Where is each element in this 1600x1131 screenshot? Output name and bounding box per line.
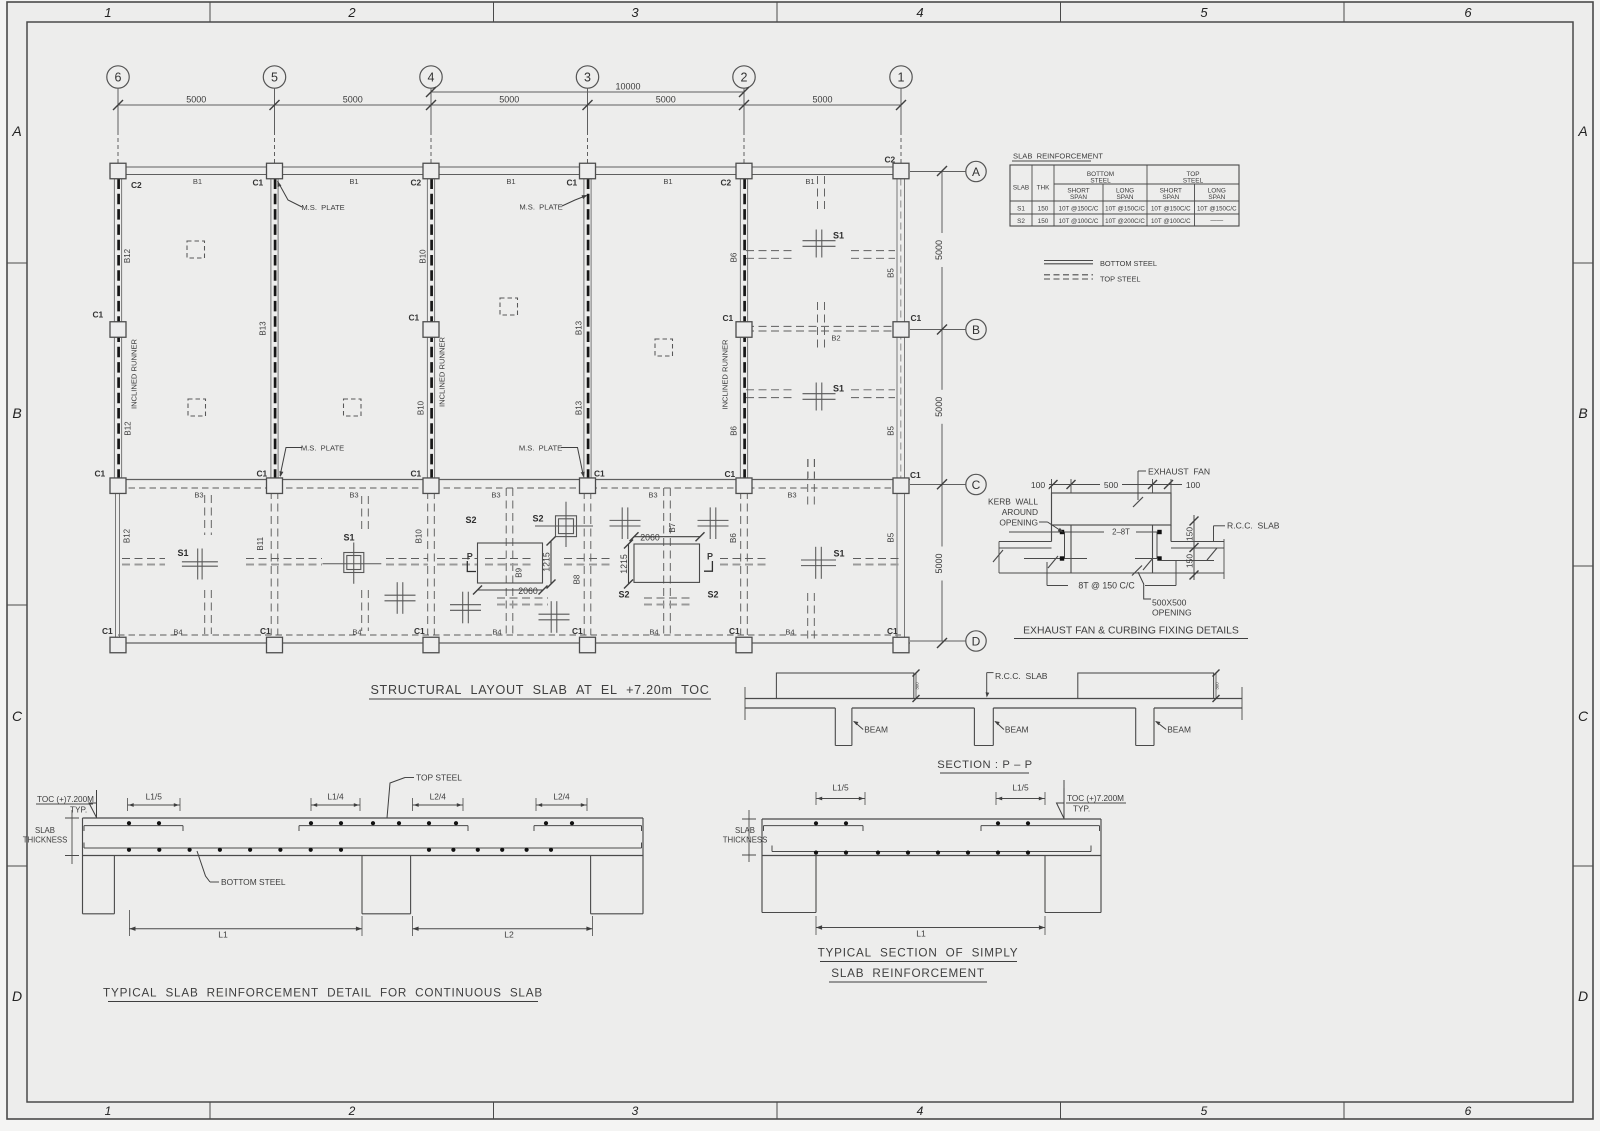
500x500 opening label [1132, 566, 1142, 576]
svg-text:C1: C1 [887, 626, 898, 636]
dim 1215 left of rect2 [628, 544, 630, 584]
rcc slab bottom [999, 572, 1224, 574]
svg-text:INCLINED RUNNER: INCLINED RUNNER [130, 338, 139, 409]
svg-text:B1: B1 [663, 177, 672, 186]
svg-text:L1/5: L1/5 [146, 792, 163, 802]
grid stem 3 [587, 88, 589, 131]
svg-text:M.S. PLATE: M.S. PLATE [519, 203, 562, 212]
svg-text:1: 1 [104, 5, 111, 20]
svg-text:150: 150 [1185, 527, 1195, 541]
svg-text:B4: B4 [492, 628, 501, 637]
grid6 edge beam C-D [115, 494, 117, 638]
svg-text:BOTTOM STEEL: BOTTOM STEEL [1100, 259, 1157, 268]
svg-text:STEEL: STEEL [1183, 178, 1204, 185]
row connector D [910, 640, 966, 642]
bottom steel line simply [772, 851, 1091, 853]
svg-text:OPENING: OPENING [999, 518, 1038, 528]
row A beam B1 double line [111, 166, 909, 168]
row D beam line solid [110, 642, 910, 644]
svg-text:B11: B11 [256, 536, 265, 550]
svg-text:L1/4: L1/4 [327, 792, 344, 802]
svg-text:B10: B10 [417, 400, 426, 415]
svg-text:L1: L1 [218, 930, 228, 940]
vertical dim 5000 right [941, 171, 943, 641]
svg-text:B2: B2 [831, 333, 840, 342]
svg-text:5000: 5000 [934, 553, 944, 573]
svg-text:SPAN: SPAN [1117, 194, 1134, 201]
top span dims simply [816, 798, 865, 800]
svg-text:AROUND: AROUND [1002, 507, 1038, 517]
svg-text:A: A [1577, 123, 1587, 139]
columns row B [110, 322, 126, 338]
svg-text:B: B [1578, 405, 1587, 421]
top span dims continuous [128, 804, 181, 806]
svg-text:S1: S1 [177, 548, 188, 558]
svg-text:B6: B6 [729, 533, 738, 543]
svg-text:B13: B13 [575, 400, 584, 415]
svg-text:L2: L2 [504, 930, 514, 940]
right zone strip dividers [1573, 262, 1593, 264]
svg-text:THICKNESS: THICKNESS [723, 836, 768, 845]
dim 2060 above rect2 [634, 536, 700, 538]
svg-text:S2: S2 [707, 590, 718, 600]
svg-text:1215: 1215 [542, 552, 552, 572]
svg-text:1: 1 [898, 71, 905, 85]
S2 rect bay3-2 section P [634, 544, 700, 582]
dim L2 continuous [413, 928, 593, 930]
bottom steel line continuous [84, 847, 642, 849]
svg-text:C2: C2 [131, 180, 142, 190]
svg-text:100: 100 [1031, 480, 1046, 490]
svg-text:6: 6 [1464, 5, 1472, 20]
svg-text:B1: B1 [193, 177, 202, 186]
top steel dots continuous [127, 821, 131, 825]
svg-text:C: C [972, 478, 981, 492]
grid bubble 2 [733, 66, 755, 88]
svg-text:5000: 5000 [812, 95, 832, 105]
rebar dots kerb [1060, 530, 1064, 534]
dim line 10000 grid4-grid2 [431, 91, 744, 93]
svg-text:C1: C1 [572, 626, 583, 636]
slab S2 nested square near grid3 [556, 516, 577, 537]
svg-text:1: 1 [105, 1104, 112, 1118]
bottom dashed stubs below S2 rects [497, 597, 548, 599]
svg-text:B12: B12 [123, 528, 132, 543]
svg-text:C: C [12, 708, 23, 724]
legend bottom steel [1044, 260, 1093, 262]
svg-text:S1: S1 [833, 384, 844, 394]
pad height ticks [915, 673, 917, 699]
svg-text:6: 6 [115, 71, 122, 85]
svg-text:INCLINED RUNNER: INCLINED RUNNER [721, 339, 730, 410]
svg-text:P: P [467, 552, 473, 562]
svg-text:L1: L1 [916, 929, 926, 939]
svg-text:C1: C1 [729, 626, 740, 636]
svg-text:B: B [972, 323, 980, 337]
beam B7 mid-bay3-2 dashed [663, 488, 665, 635]
row connector A [910, 171, 966, 173]
columns row D [110, 637, 126, 653]
svg-text:SPAN: SPAN [1070, 194, 1087, 201]
svg-text:SLAB: SLAB [1013, 185, 1029, 192]
svg-text:10T @150C/C: 10T @150C/C [1059, 206, 1099, 213]
svg-text:M.S. PLATE: M.S. PLATE [301, 444, 344, 453]
svg-text:C1: C1 [414, 626, 425, 636]
svg-text:B5: B5 [887, 425, 896, 435]
svg-text:SPAN: SPAN [1208, 194, 1225, 201]
svg-text:B1: B1 [506, 177, 515, 186]
svg-text:2060: 2060 [640, 532, 660, 542]
svg-text:3: 3 [631, 5, 639, 20]
svg-text:C1: C1 [411, 469, 422, 479]
beam B6 grid2 C-D dashed [740, 491, 742, 635]
beam B9 mid-bay4-3 dashed [505, 488, 507, 635]
svg-text:——: —— [1210, 217, 1223, 224]
beam B11 grid5 C-D dashed [270, 491, 272, 635]
svg-text:S1: S1 [833, 549, 844, 559]
svg-text:C1: C1 [257, 469, 268, 479]
svg-text:EXHAUST FAN & CURBING FIXING D: EXHAUST FAN & CURBING FIXING DETAILS [1023, 626, 1239, 637]
svg-text:A: A [11, 123, 21, 139]
svg-text:10T @150C/C: 10T @150C/C [1105, 206, 1145, 213]
top zone strip dividers [209, 2, 211, 22]
svg-text:5: 5 [1201, 1104, 1208, 1118]
slab S1 cross right bay lower [815, 383, 817, 411]
svg-text:STRUCTURAL LAYOUT SLAB AT: STRUCTURAL LAYOUT SLAB AT EL +7.20m TOC [370, 683, 709, 697]
svg-text:C1: C1 [102, 626, 113, 636]
svg-text:2: 2 [741, 71, 748, 85]
bottom zone strip dividers [209, 1102, 211, 1119]
inclined runner verticals grids 6-2 [113, 179, 115, 479]
svg-text:P: P [707, 552, 713, 562]
small cross grid3 low [550, 601, 552, 633]
svg-text:5: 5 [1200, 5, 1208, 20]
right bay vertical stubs [817, 176, 819, 210]
svg-text:C1: C1 [95, 469, 106, 479]
top steel dots simply [814, 821, 818, 825]
svg-text:B: B [12, 405, 21, 421]
top steel lines simply [764, 825, 864, 827]
exhaust detail dim line top [1028, 484, 1202, 486]
svg-text:5000: 5000 [186, 95, 206, 105]
svg-text:3: 3 [584, 71, 591, 85]
svg-text:5: 5 [271, 71, 278, 85]
svg-text:R.C.C. SLAB: R.C.C. SLAB [995, 671, 1048, 681]
row bubble C [966, 474, 986, 494]
svg-text:SECTION : P – P: SECTION : P – P [937, 759, 1032, 771]
bottom steel dots simply [814, 851, 818, 855]
svg-text:B10: B10 [419, 249, 428, 264]
svg-text:C1: C1 [253, 178, 264, 188]
svg-text:M.S. PLATE: M.S. PLATE [301, 203, 344, 212]
svg-text:B5: B5 [887, 268, 896, 278]
row C beam line dashed [118, 487, 901, 489]
svg-text:D: D [1578, 988, 1588, 1004]
svg-text:C1: C1 [725, 469, 736, 479]
svg-text:1215: 1215 [619, 554, 629, 574]
svg-text:STEEL: STEEL [1090, 178, 1111, 185]
svg-text:S1: S1 [833, 231, 844, 241]
svg-text:10T @150C/C: 10T @150C/C [1197, 206, 1237, 213]
svg-text:3: 3 [632, 1104, 639, 1118]
svg-text:2–8T: 2–8T [1112, 528, 1130, 537]
svg-text:BOTTOM STEEL: BOTTOM STEEL [221, 877, 286, 887]
svg-text:4: 4 [428, 71, 435, 85]
kerb rebar 2-8T [1009, 531, 1104, 533]
svg-text:5000: 5000 [934, 240, 944, 260]
svg-text:L2/4: L2/4 [430, 792, 447, 802]
row bubble D [966, 631, 986, 651]
svg-text:S1: S1 [1017, 206, 1025, 213]
svg-text:B3: B3 [491, 491, 500, 500]
svg-text:C1: C1 [911, 313, 922, 323]
S2 rect bay4-3 section P [478, 543, 543, 583]
svg-text:4: 4 [917, 1104, 924, 1118]
svg-text:5000: 5000 [656, 95, 676, 105]
left zone strip dividers [7, 262, 27, 264]
simply slab supports [762, 912, 816, 914]
small cross bay4-3 low [462, 592, 464, 624]
beam B10 grid4 C-D dashed [427, 491, 429, 635]
small cross bay3-2 right [709, 507, 711, 539]
svg-text:SLAB REINFORCEMENT: SLAB REINFORCEMENT [831, 967, 985, 980]
opening side walls [1070, 525, 1072, 573]
small cross bay5-4 low [396, 582, 398, 614]
slab S1 nested square bay5-4 [344, 553, 364, 573]
svg-text:4: 4 [916, 5, 923, 20]
slab S1 cross bay2-1 strip [815, 547, 817, 579]
svg-text:B6: B6 [729, 425, 738, 435]
svg-text:M.S. PLATE: M.S. PLATE [519, 444, 562, 453]
row C beam line solid [110, 479, 910, 481]
svg-text:L2/4: L2/4 [553, 792, 570, 802]
svg-text:B7: B7 [668, 522, 677, 532]
svg-text:C1: C1 [594, 469, 605, 479]
svg-text:B3: B3 [194, 491, 203, 500]
svg-text:2060: 2060 [518, 586, 538, 596]
legend top steel [1044, 274, 1093, 276]
dim line 5000 top [118, 104, 901, 106]
svg-text:TYP.: TYP. [70, 806, 87, 815]
slab S1 cross bay6-5 [197, 549, 199, 580]
svg-text:C1: C1 [93, 310, 104, 320]
svg-text:OPENING: OPENING [1152, 608, 1192, 618]
row D beam line dashed [118, 634, 901, 636]
svg-text:TOC (+)7.200M: TOC (+)7.200M [37, 795, 94, 804]
svg-text:B10: B10 [414, 529, 423, 544]
svg-text:150: 150 [1185, 554, 1195, 568]
svg-text:6: 6 [1465, 1104, 1472, 1118]
svg-text:C1: C1 [260, 626, 271, 636]
small cross bay3-2 left [621, 507, 623, 539]
grid stem 2 [743, 88, 745, 131]
svg-text:C2: C2 [411, 178, 422, 188]
row connector C [910, 484, 966, 486]
grid1 edge beam A-C [896, 179, 898, 479]
top steel lines continuous [84, 825, 183, 827]
svg-text:S1: S1 [343, 533, 354, 543]
svg-text:10T @200C/C: 10T @200C/C [1105, 218, 1145, 225]
grid stem 1 [900, 88, 902, 131]
svg-text:D: D [972, 634, 981, 648]
svg-text:B9: B9 [514, 567, 523, 577]
grid stem 6 [117, 88, 119, 131]
svg-text:150: 150 [1038, 218, 1049, 225]
columns row A [110, 163, 126, 179]
continuous slab supports [83, 913, 115, 915]
kerb wall outline [1052, 493, 1172, 525]
grid1 edge beam C-D [896, 494, 898, 638]
svg-text:B4: B4 [173, 628, 182, 637]
svg-text:TOC (+)7.200M: TOC (+)7.200M [1067, 794, 1124, 803]
svg-text:S2: S2 [532, 514, 543, 524]
svg-text:S2: S2 [1017, 218, 1025, 225]
svg-text:BEAM: BEAM [864, 725, 888, 735]
rcc slab right [1171, 541, 1224, 543]
section PP beams [834, 708, 836, 746]
svg-text:B4: B4 [785, 628, 794, 637]
svg-text:TYPICAL SLAB REINFORCEMENT: TYPICAL SLAB REINFORCEMENT DETAIL FOR CO… [103, 987, 543, 1000]
svg-text:S2: S2 [618, 590, 629, 600]
bottom steel dots continuous [127, 848, 131, 852]
svg-text:TYPICAL SECTION OF SIMPLY: TYPICAL SECTION OF SIMPLY [818, 947, 1019, 960]
svg-text:10T @100C/C: 10T @100C/C [1059, 218, 1099, 225]
rcc slab left [999, 541, 1052, 543]
svg-text:S2: S2 [465, 515, 476, 525]
row bubble A [966, 161, 986, 181]
exhaust detail dim extensions [1051, 479, 1053, 493]
svg-text:500X500: 500X500 [1152, 598, 1187, 608]
break slashes [993, 550, 1003, 562]
grid bubble 6 [107, 66, 129, 88]
svg-text:C1: C1 [567, 178, 578, 188]
svg-text:SLAB: SLAB [35, 826, 55, 835]
dim L1 simply [816, 927, 1045, 929]
row connector B [910, 329, 966, 331]
dim 1215 right of rect1 [550, 541, 552, 584]
svg-text:300: 300 [915, 682, 920, 690]
svg-text:2: 2 [347, 5, 356, 20]
svg-text:TYP.: TYP. [1073, 805, 1090, 814]
svg-text:2: 2 [348, 1104, 356, 1118]
bottom bar line right [1159, 560, 1214, 562]
svg-text:10T @150C/C: 10T @150C/C [1151, 206, 1191, 213]
svg-text:B13: B13 [575, 320, 584, 335]
svg-text:L1/5: L1/5 [832, 783, 849, 793]
opening dashed squares [187, 241, 205, 258]
grid bubble 5 [263, 66, 285, 88]
mid strip horizontal dashed beams [122, 558, 165, 560]
grid stem 5 [274, 88, 276, 131]
svg-text:8T @ 150 C/C: 8T @ 150 C/C [1078, 581, 1135, 591]
stub beams below row C / above row D [204, 495, 206, 535]
right bay horizontal dashed beams B6-B5 upper [746, 250, 794, 252]
beam B8 grid3 C-D dashed [583, 491, 585, 635]
dim 2060 below rect1 [478, 589, 544, 591]
svg-text:C: C [1578, 708, 1589, 724]
150 150 dim right [1193, 515, 1195, 580]
svg-text:150: 150 [1038, 206, 1049, 213]
svg-text:C2: C2 [885, 155, 896, 165]
svg-text:SPAN: SPAN [1162, 194, 1179, 201]
section PP slab [745, 698, 1242, 700]
svg-text:5000: 5000 [499, 95, 519, 105]
svg-text:100: 100 [1186, 480, 1201, 490]
svg-text:C1: C1 [409, 313, 420, 323]
svg-text:SLAB: SLAB [735, 826, 755, 835]
svg-text:THICKNESS: THICKNESS [23, 836, 68, 845]
svg-text:TOP STEEL: TOP STEEL [1100, 275, 1141, 284]
grid stem 4 [430, 88, 432, 131]
svg-text:R.C.C. SLAB: R.C.C. SLAB [1227, 521, 1280, 531]
svg-text:B1: B1 [805, 177, 814, 186]
svg-text:10000: 10000 [615, 82, 640, 92]
svg-text:A: A [972, 165, 980, 179]
svg-text:C1: C1 [910, 470, 921, 480]
svg-text:B4: B4 [352, 628, 361, 637]
svg-text:10T @100C/C: 10T @100C/C [1151, 218, 1191, 225]
section PP pads [776, 673, 913, 699]
row bubble B [966, 319, 986, 339]
svg-text:B8: B8 [573, 574, 582, 584]
svg-text:TOP STEEL: TOP STEEL [416, 773, 462, 783]
slab reinforcement table [1010, 165, 1239, 226]
svg-text:D: D [12, 988, 22, 1004]
svg-text:B12: B12 [123, 248, 132, 263]
right bay horizontal dashed beams B6-B5 lower [746, 389, 794, 391]
svg-text:L1/5: L1/5 [1012, 783, 1029, 793]
grid bubble 4 [420, 66, 442, 88]
svg-text:SLAB REINFORCEMENT: SLAB REINFORCEMENT [1013, 152, 1103, 161]
svg-text:BEAM: BEAM [1005, 725, 1029, 735]
svg-text:B13: B13 [259, 321, 268, 336]
svg-text:5000: 5000 [934, 397, 944, 417]
svg-text:KERB WALL: KERB WALL [988, 497, 1038, 507]
svg-text:B3: B3 [787, 491, 796, 500]
svg-text:B4: B4 [649, 628, 658, 637]
columns row C [110, 478, 126, 494]
svg-text:THK: THK [1037, 185, 1051, 192]
svg-text:INCLINED RUNNER: INCLINED RUNNER [438, 336, 447, 407]
svg-text:5000: 5000 [343, 95, 363, 105]
svg-text:B12: B12 [124, 421, 133, 436]
continuous slab outline [83, 817, 644, 819]
svg-text:B6: B6 [729, 252, 738, 262]
grid bubble 1 [890, 66, 912, 88]
grid bubble 3 [576, 66, 598, 88]
svg-text:B5: B5 [886, 532, 895, 542]
svg-text:B1: B1 [349, 177, 358, 186]
svg-text:B3: B3 [648, 491, 657, 500]
slab S1 cross right bay upper [815, 230, 817, 258]
beam B2 row B dashed [746, 325, 898, 327]
simply slab outline [762, 818, 1101, 820]
svg-text:500: 500 [1104, 480, 1119, 490]
svg-text:B3: B3 [349, 491, 358, 500]
svg-text:BEAM: BEAM [1167, 725, 1191, 735]
svg-text:EXHAUST FAN: EXHAUST FAN [1148, 467, 1210, 477]
svg-text:C1: C1 [723, 313, 734, 323]
svg-text:300: 300 [1215, 682, 1220, 690]
dim L1 continuous [129, 928, 362, 930]
svg-text:C2: C2 [721, 178, 732, 188]
